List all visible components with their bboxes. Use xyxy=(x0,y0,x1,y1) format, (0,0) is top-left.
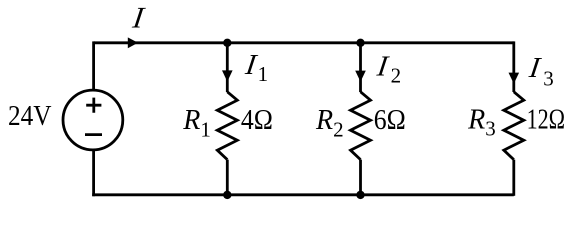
resistor R1 zigzag xyxy=(217,92,237,160)
svg-text:I: I xyxy=(128,1,149,34)
arrowhead current I3 xyxy=(509,73,520,84)
node junction dot bottom R2 xyxy=(356,191,364,199)
wire bottom bus xyxy=(92,193,514,196)
arrowhead current I2 xyxy=(355,71,366,82)
arrowhead current I1 xyxy=(222,70,233,81)
voltage source minus sign xyxy=(85,133,102,136)
voltage source V1 24V circle xyxy=(63,90,123,150)
wire R2 bottom lead xyxy=(359,160,362,196)
svg-text:R3: R3 xyxy=(467,104,496,140)
wire left vertical (source top lead) xyxy=(92,41,95,89)
svg-text:4Ω: 4Ω xyxy=(241,105,273,136)
wire R2 top lead xyxy=(359,43,362,92)
svg-text:3: 3 xyxy=(543,66,554,90)
node junction dot top R2 xyxy=(356,39,364,47)
resistor R3 zigzag xyxy=(504,92,524,160)
wire R1 bottom lead xyxy=(226,160,229,196)
svg-text:1: 1 xyxy=(258,62,269,86)
svg-text:R2: R2 xyxy=(315,105,344,141)
arrowhead current I on top wire xyxy=(128,37,138,48)
svg-text:2: 2 xyxy=(391,64,402,88)
wire R3 top lead xyxy=(512,41,515,92)
svg-text:12Ω: 12Ω xyxy=(527,105,566,136)
node junction dot bottom R1 xyxy=(223,191,231,199)
wire top bus xyxy=(94,41,514,44)
wire R1 top lead xyxy=(226,43,229,92)
svg-text:I: I xyxy=(525,52,545,84)
svg-text:24V: 24V xyxy=(8,101,52,132)
wire R3 bottom lead xyxy=(512,160,515,196)
svg-text:R1: R1 xyxy=(182,105,211,141)
resistor R2 zigzag xyxy=(351,92,371,160)
wire left vertical (source bottom lead) xyxy=(92,151,95,196)
voltage source plus sign xyxy=(86,98,101,113)
svg-text:6Ω: 6Ω xyxy=(374,105,406,136)
node junction dot top R1 xyxy=(223,39,231,47)
